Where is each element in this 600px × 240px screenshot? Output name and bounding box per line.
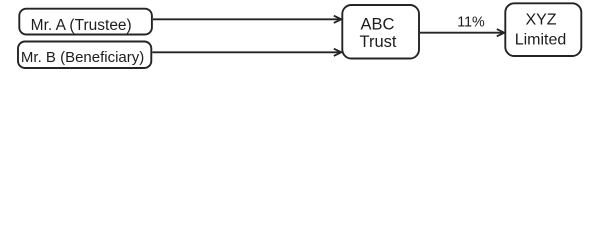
arrowhead 3 — [497, 29, 505, 36]
svg-text:Trust: Trust — [360, 33, 397, 51]
box XYZ Limited — [505, 3, 581, 56]
wire arrow from Mr. B box to ABC Trust — [152, 51, 340, 53]
arrowhead 2 — [334, 49, 342, 56]
svg-text:Mr. A (Trustee): Mr. A (Trustee) — [31, 17, 132, 34]
svg-text:11%: 11% — [457, 15, 485, 31]
arrowhead 1 — [334, 16, 342, 23]
box ABC Trust — [342, 5, 419, 59]
wire arrow from Mr. A box to ABC Trust — [153, 18, 341, 20]
svg-text:Limited: Limited — [515, 31, 567, 48]
box Mr. B (Beneficiary) — [18, 42, 151, 69]
svg-text:XYZ: XYZ — [525, 11, 556, 28]
wire arrow from ABC Trust to XYZ Limited — [420, 32, 504, 34]
box Mr. A (Trustee) — [19, 9, 152, 35]
svg-text:ABC: ABC — [361, 16, 395, 34]
svg-text:Mr. B (Beneficiary): Mr. B (Beneficiary) — [21, 49, 144, 66]
